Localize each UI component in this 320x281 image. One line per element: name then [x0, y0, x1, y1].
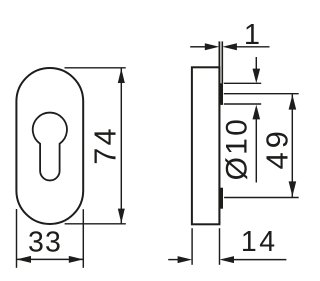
dimension 1: left shaft	[190, 46, 206, 48]
dimension 1: right shaft	[235, 46, 270, 48]
fixing pin 1 (solid, side view)	[220, 83, 223, 105]
arrowhead D10 up	[253, 105, 261, 120]
escutcheon oval outline (front view)	[16, 68, 83, 224]
keyhole euro profile cutout	[33, 113, 67, 181]
dimension 74: top extension line	[65, 67, 126, 69]
extension line pin1 bottom (for diameter 10)	[224, 103, 261, 105]
dimension 74: dimension line	[120, 68, 122, 224]
arrowhead 33 right	[69, 256, 84, 263]
side view body rectangle	[192, 67, 220, 224]
arrowhead 14 left (points right)	[178, 256, 193, 263]
dimension 14: right extension line	[219, 228, 221, 265]
arrowhead 49 up	[289, 95, 297, 110]
dimension 49: dimension line	[291, 94, 293, 197]
extension line pin2 centre (for 49)	[224, 197, 299, 199]
dimension 33: right extension line	[82, 209, 84, 268]
arrowhead 1 left (points right)	[205, 43, 220, 50]
dimension D10: lower shaft	[255, 117, 257, 183]
svg-text:49: 49	[260, 127, 295, 169]
dimension D10: upper shaft	[255, 57, 257, 71]
arrowhead 1 right (points left)	[222, 43, 237, 50]
dimension 74: bottom extension line	[65, 223, 126, 225]
arrowhead D10 down	[253, 69, 261, 84]
side view face plate line (right edge of 1mm plate)	[221, 41, 223, 83]
svg-text:1: 1	[244, 19, 260, 51]
svg-text:14: 14	[241, 226, 278, 258]
dimension 33: dimension line	[17, 258, 84, 260]
side view face plate line (left edge of 1mm plate)	[218, 41, 220, 224]
arrowhead 49 down	[289, 181, 297, 196]
dimension 33: left extension line	[16, 209, 18, 268]
extension line pin1 top (for diameter 10)	[224, 82, 261, 84]
dimension 14: left shaft	[168, 259, 179, 261]
dimension 14: left extension line	[191, 228, 193, 265]
svg-text:Ø10: Ø10	[220, 117, 253, 180]
extension line pin1 centre (for 49)	[224, 93, 299, 95]
fixing pin 2 (solid, side view)	[220, 188, 223, 209]
arrowhead 74 bottom	[118, 209, 125, 224]
dimension 14: right shaft	[232, 259, 286, 261]
svg-text:33: 33	[28, 226, 62, 258]
arrowhead 14 right (points left)	[220, 256, 235, 263]
arrowhead 74 top	[118, 69, 125, 84]
arrowhead 33 left	[17, 256, 32, 263]
svg-text:74: 74	[88, 126, 122, 164]
